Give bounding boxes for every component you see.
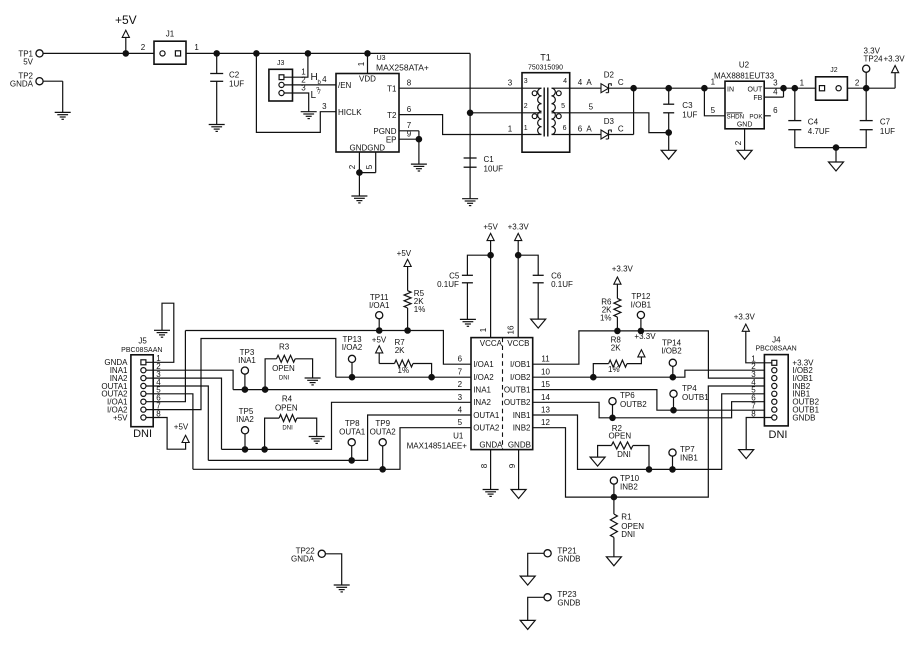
svg-text:+5V: +5V <box>372 336 387 345</box>
svg-text:2: 2 <box>734 140 743 145</box>
ground <box>154 330 170 337</box>
svg-text:GNDA: GNDA <box>10 79 34 88</box>
wire J5 pin2 INA1 <box>146 370 233 389</box>
ground <box>520 576 535 585</box>
junction <box>305 50 312 57</box>
wire net INA2 <box>222 402 472 449</box>
svg-text:MAX8881EUT33: MAX8881EUT33 <box>714 71 775 80</box>
svg-text:4.7UF: 4.7UF <box>808 127 830 136</box>
svg-text:I/OA1: I/OA1 <box>369 301 390 310</box>
svg-text:2K: 2K <box>611 344 621 353</box>
svg-text:PBC08SAAN: PBC08SAAN <box>755 346 796 353</box>
test point TP6 OUTB2 <box>609 391 647 421</box>
svg-text:5: 5 <box>458 418 463 427</box>
svg-text:6: 6 <box>458 355 463 364</box>
svg-text:1: 1 <box>800 78 805 87</box>
wire to ground <box>835 148 837 162</box>
test point TP7 INB1 <box>669 445 698 473</box>
svg-text:5V: 5V <box>23 58 33 67</box>
connector J5 PBC08SAAN <box>101 337 162 441</box>
wire HICLK net <box>256 53 336 132</box>
svg-text:1UF: 1UF <box>880 127 895 136</box>
IC U2 MAX8881EUT33 <box>714 61 775 129</box>
ground <box>483 490 499 497</box>
svg-text:INA2: INA2 <box>473 398 491 407</box>
svg-text:TP4: TP4 <box>682 384 697 393</box>
svg-text:VDD: VDD <box>359 75 376 84</box>
test point TP4 OUTB1 <box>670 384 709 414</box>
svg-text:2: 2 <box>141 43 146 52</box>
svg-text:FB: FB <box>753 95 762 102</box>
ground <box>309 437 325 444</box>
svg-text:MAX258ATA+: MAX258ATA+ <box>376 62 429 72</box>
svg-text:OPEN: OPEN <box>272 364 295 373</box>
svg-text:HICLK: HICLK <box>338 108 362 117</box>
svg-text:OUTA1: OUTA1 <box>339 427 366 436</box>
svg-text:I/OA2: I/OA2 <box>342 343 363 352</box>
svg-text:J2: J2 <box>830 67 838 74</box>
svg-text:4: 4 <box>578 78 583 87</box>
svg-text:7: 7 <box>458 368 463 377</box>
svg-text:R1: R1 <box>621 512 632 521</box>
test point TP13 I/OA2 <box>342 335 363 381</box>
junction <box>213 50 220 57</box>
wire U3 GND pins 2 5 <box>348 152 376 196</box>
ground <box>520 620 535 629</box>
svg-text:9: 9 <box>508 463 517 468</box>
wire J5 pin4 OUTA1 <box>146 386 208 460</box>
test point TP23 GNDB <box>528 590 581 620</box>
svg-text:T1: T1 <box>540 53 551 63</box>
capacitor C4 <box>788 88 836 147</box>
power +5V flag <box>115 13 137 53</box>
test point TP3 INA1 <box>238 348 256 393</box>
svg-text:I/OA2: I/OA2 <box>473 373 494 382</box>
wire U3 VDD pin 1 <box>357 53 368 73</box>
junction <box>123 50 130 57</box>
svg-text:4: 4 <box>322 75 327 84</box>
svg-text:T1: T1 <box>387 84 397 93</box>
svg-text:C4: C4 <box>808 118 819 127</box>
test point TP2 <box>10 71 63 112</box>
power +5V flag VCCA <box>483 223 498 338</box>
svg-text:1: 1 <box>508 125 513 134</box>
svg-text:OUT: OUT <box>748 87 764 94</box>
svg-text:0.1UF: 0.1UF <box>437 280 459 289</box>
svg-text:GNDGND: GNDGND <box>350 143 386 152</box>
svg-text:GNDA: GNDA <box>291 555 315 564</box>
resistor R3 OPEN DNI <box>262 343 313 393</box>
svg-text:INB1: INB1 <box>513 411 531 420</box>
junction <box>701 85 708 92</box>
svg-text:J1: J1 <box>166 30 175 39</box>
junction <box>253 50 260 57</box>
wire U3 T2 to transformer pin 1 <box>399 105 522 135</box>
ground <box>829 162 844 171</box>
svg-text:+3.3V: +3.3V <box>734 313 756 322</box>
svg-text:10: 10 <box>541 368 550 377</box>
wire net INA1 <box>233 389 471 391</box>
svg-text:OUTB1: OUTB1 <box>682 393 709 402</box>
svg-text:1%: 1% <box>608 365 620 374</box>
svg-text:1: 1 <box>479 327 488 332</box>
wire net I/OB2 <box>533 370 765 377</box>
svg-text:EP: EP <box>386 136 397 145</box>
svg-text:+3.3V: +3.3V <box>612 264 634 273</box>
wire J4 pin8 GNDB <box>746 418 772 450</box>
svg-text:MAX14851AEE+: MAX14851AEE+ <box>407 441 468 450</box>
resistor R6 2K 1% <box>600 264 634 334</box>
svg-text:+3.3V: +3.3V <box>634 332 656 341</box>
svg-text:1%: 1% <box>398 366 410 375</box>
svg-text:INB2: INB2 <box>620 482 638 491</box>
junction <box>515 252 522 259</box>
svg-text:5: 5 <box>589 102 594 111</box>
svg-text:INA1: INA1 <box>473 385 491 394</box>
wire rectified rail <box>634 87 725 89</box>
power +5V flag <box>174 423 189 443</box>
svg-text:6: 6 <box>773 106 778 115</box>
wire net INB1 <box>533 394 765 470</box>
resistor R1 OPEN DNI <box>610 497 644 557</box>
svg-text:C3: C3 <box>682 101 693 110</box>
capacitor C6 <box>518 255 573 319</box>
power +3.3V flag <box>892 66 899 89</box>
wire net I/OB1 <box>533 331 765 378</box>
junction <box>630 85 637 92</box>
svg-text:3: 3 <box>458 393 463 402</box>
wire net I/OA2 <box>336 376 471 378</box>
ground <box>462 199 478 206</box>
svg-text:OUTA1: OUTA1 <box>473 411 500 420</box>
wire J3 pin2 to /EN <box>284 75 336 93</box>
svg-text:1: 1 <box>524 125 528 132</box>
svg-text:DNI: DNI <box>133 428 152 440</box>
svg-text:3: 3 <box>773 78 778 87</box>
svg-text:A: A <box>586 125 592 134</box>
svg-text:2: 2 <box>348 164 357 169</box>
svg-text:PBC08SAAN: PBC08SAAN <box>121 347 162 354</box>
resistor R5 2K 1% <box>397 249 426 334</box>
wire U2 GND <box>734 129 745 151</box>
svg-text:U1: U1 <box>453 432 464 441</box>
wire J5 pin5 OUTA2 <box>146 394 193 470</box>
svg-text:J4: J4 <box>772 336 781 345</box>
ground <box>739 450 754 459</box>
svg-text:U3: U3 <box>377 55 386 62</box>
test point TP12 I/OB1 <box>631 292 652 334</box>
svg-text:+3.3V: +3.3V <box>508 223 530 232</box>
svg-text:I/OB1: I/OB1 <box>631 301 652 310</box>
svg-text:OUTB2: OUTB2 <box>620 400 647 409</box>
wire J5 pin7 I/OA2 riser <box>146 339 336 410</box>
svg-text:4: 4 <box>458 406 463 415</box>
svg-text:INB2: INB2 <box>513 424 531 433</box>
wire net OUTB2 <box>533 402 765 418</box>
svg-text:R3: R3 <box>279 343 290 352</box>
test point TP21 GNDB <box>528 546 581 576</box>
wire D3 to D2 output <box>633 88 635 134</box>
svg-text:10UF: 10UF <box>484 164 504 173</box>
svg-text:+5V: +5V <box>174 423 189 432</box>
svg-text:3: 3 <box>322 102 327 111</box>
wire J5 pin1 to ground <box>146 303 174 362</box>
svg-text:1UF: 1UF <box>682 110 697 119</box>
test point TP1 <box>18 50 43 67</box>
svg-text:L: L <box>311 90 317 101</box>
svg-text:5: 5 <box>711 106 716 115</box>
svg-text:C1: C1 <box>484 155 495 164</box>
wire U1 GNDB pin 9 <box>508 450 519 490</box>
svg-text:J5: J5 <box>138 337 147 346</box>
power +3.3V flag <box>734 313 756 332</box>
svg-text:/EN: /EN <box>338 81 352 90</box>
svg-text:D3: D3 <box>604 117 615 126</box>
svg-text:6: 6 <box>563 125 567 132</box>
junction <box>467 110 474 117</box>
svg-text:A: A <box>586 78 592 87</box>
svg-text:GNDB: GNDB <box>557 599 580 608</box>
ground <box>351 196 367 203</box>
IC U1 MAX14851AEE+ <box>407 325 551 450</box>
test point TP22 GNDA <box>291 547 342 585</box>
svg-text:TP24: TP24 <box>864 54 884 63</box>
svg-text:2: 2 <box>855 78 860 87</box>
wire U1 GNDA pin 8 <box>480 450 491 490</box>
svg-text:11: 11 <box>541 355 550 364</box>
ground <box>334 585 350 592</box>
wire J4 pin1 +3.3V <box>746 331 772 363</box>
svg-text:R4: R4 <box>282 394 293 403</box>
ground <box>531 319 546 328</box>
ground <box>305 378 321 385</box>
wire J5 pin6 I/OA1 riser <box>146 331 185 402</box>
svg-text:+5V: +5V <box>397 249 412 258</box>
svg-text:16: 16 <box>506 325 515 334</box>
svg-text:DNI: DNI <box>282 426 293 432</box>
svg-text:OUTB2: OUTB2 <box>504 398 531 407</box>
svg-text:GNDB: GNDB <box>508 440 531 449</box>
wire SHDN net <box>704 77 725 116</box>
wire J2 pin2 to output node <box>847 87 895 89</box>
test point TP14 I/OB2 <box>661 339 682 381</box>
svg-text:6: 6 <box>578 125 583 134</box>
svg-text:0.1UF: 0.1UF <box>551 280 573 289</box>
svg-text:DNI: DNI <box>621 530 635 539</box>
svg-text:1: 1 <box>194 43 199 52</box>
capacitor C2 <box>210 53 244 124</box>
capacitor C3 <box>663 85 697 150</box>
svg-text:+5V: +5V <box>115 13 137 27</box>
wire J3 pin3 to ground <box>284 93 309 112</box>
node H <box>311 72 322 86</box>
svg-text:T2: T2 <box>387 111 397 120</box>
svg-text:I/OA1: I/OA1 <box>473 360 494 369</box>
svg-text:13: 13 <box>541 406 550 415</box>
capacitor C5 <box>437 255 490 319</box>
svg-text:OUTB1: OUTB1 <box>504 385 531 394</box>
wire transformer pin5 to C3 bottom <box>570 102 669 132</box>
svg-text:15: 15 <box>541 380 550 389</box>
svg-text:C7: C7 <box>880 118 891 127</box>
capacitor C7 <box>836 88 895 147</box>
svg-text:1%: 1% <box>600 313 612 322</box>
svg-text:+5V: +5V <box>483 223 498 232</box>
svg-text:6: 6 <box>407 105 412 114</box>
junction <box>863 85 870 92</box>
svg-text:VCCB: VCCB <box>507 339 529 348</box>
test point TP10 INB2 <box>610 474 639 500</box>
svg-text:1UF: 1UF <box>229 80 244 89</box>
svg-text:GND: GND <box>737 122 753 129</box>
junction <box>833 144 840 151</box>
svg-text:+5V: +5V <box>113 413 128 422</box>
connector J2 <box>800 67 860 100</box>
ground <box>55 112 71 119</box>
svg-text:INA2: INA2 <box>236 415 254 424</box>
wire U3 T1 to transformer pin 3 <box>399 78 522 88</box>
connector J1 <box>141 30 200 65</box>
IC U3 MAX258ATA+ <box>336 55 429 152</box>
ground <box>737 150 752 159</box>
resistor R8 2K 1% <box>590 336 641 381</box>
svg-text:C: C <box>618 125 624 134</box>
svg-text:2: 2 <box>458 380 463 389</box>
svg-text:C2: C2 <box>229 71 240 80</box>
svg-text:GNDA: GNDA <box>479 440 503 449</box>
svg-text:DNI: DNI <box>769 429 788 441</box>
svg-text:+3.3V: +3.3V <box>884 54 906 63</box>
ground <box>460 319 476 326</box>
wire +5V rail <box>186 52 470 54</box>
svg-text:OPEN: OPEN <box>608 431 631 440</box>
svg-text:POK: POK <box>749 114 763 121</box>
test point TP5 INA2 <box>236 407 254 453</box>
resistor R7 2K 1% <box>379 338 435 380</box>
ground <box>511 490 526 499</box>
power +3.3V flag <box>634 332 656 357</box>
svg-text:OUTA2: OUTA2 <box>370 427 397 436</box>
wire J5 pin8 +5V <box>146 418 186 450</box>
wire net OUTA2 <box>193 428 471 470</box>
svg-text:2K: 2K <box>395 346 405 355</box>
svg-text:INA1: INA1 <box>238 356 256 365</box>
svg-text:OUTA2: OUTA2 <box>473 424 500 433</box>
svg-text:5: 5 <box>561 103 565 110</box>
test point TP8 OUTA1 <box>339 419 366 464</box>
svg-text:INB1: INB1 <box>680 454 698 463</box>
svg-text:DNI: DNI <box>617 450 631 459</box>
wire U2 POK stub <box>764 106 778 116</box>
ground <box>661 150 676 159</box>
transformer T1 750315090 <box>522 53 570 153</box>
resistor R2 OPEN DNI <box>598 424 653 473</box>
svg-text:8: 8 <box>480 463 489 468</box>
svg-text:OPEN: OPEN <box>275 403 298 412</box>
svg-text:9: 9 <box>407 130 412 139</box>
svg-text:DNI: DNI <box>279 375 290 381</box>
svg-text:4: 4 <box>773 88 778 97</box>
wire net OUTB1 <box>533 390 765 411</box>
svg-text:1: 1 <box>357 61 366 66</box>
diode D3 <box>570 117 634 139</box>
test point TP9 OUTA2 <box>370 419 397 472</box>
test point TP11 I/OA1 <box>369 293 390 334</box>
svg-text:750315090: 750315090 <box>528 65 563 72</box>
svg-text:SHDN: SHDN <box>727 114 745 121</box>
ground <box>606 557 621 566</box>
svg-text:3: 3 <box>508 78 513 87</box>
wire U2 OUT FB <box>764 78 815 97</box>
svg-text:GNDB: GNDB <box>557 555 580 564</box>
capacitor C1 <box>464 155 504 199</box>
node L <box>311 90 322 101</box>
svg-text:J3: J3 <box>277 60 285 67</box>
svg-text:C: C <box>618 78 624 87</box>
svg-text:I/OB1: I/OB1 <box>510 360 531 369</box>
svg-text:TP6: TP6 <box>620 391 635 400</box>
svg-text:12: 12 <box>541 418 550 427</box>
svg-text:5: 5 <box>365 164 374 169</box>
junction <box>487 252 494 259</box>
wire PGND EP <box>399 121 422 164</box>
junction <box>364 50 371 57</box>
wire net INB2 <box>533 386 765 497</box>
svg-text:U2: U2 <box>739 61 750 70</box>
svg-text:14: 14 <box>541 393 550 402</box>
wire net I/OA1 <box>185 331 471 365</box>
wire net OUTA1 <box>208 415 471 460</box>
connector J4 PBC08SAAN <box>751 336 819 441</box>
svg-text:IN: IN <box>727 87 734 94</box>
wire J5 pin3 INA2 <box>146 378 222 449</box>
resistor R4 OPEN DNI <box>261 394 316 452</box>
ground <box>301 112 317 119</box>
svg-text:8: 8 <box>407 78 412 87</box>
wire J3 pin1 to +5V <box>284 53 308 77</box>
svg-text:I/OB2: I/OB2 <box>661 347 682 356</box>
svg-text:D2: D2 <box>604 71 615 80</box>
wire <box>43 52 154 54</box>
svg-text:I/OB2: I/OB2 <box>510 373 531 382</box>
power +5V flag <box>372 336 387 353</box>
svg-text:1%: 1% <box>414 305 426 314</box>
svg-text:VCCA: VCCA <box>480 339 503 348</box>
test point TP24 <box>863 46 906 88</box>
ground <box>411 164 427 171</box>
svg-text:2: 2 <box>524 103 528 110</box>
wire rail corner to transformer pin 2 <box>469 53 471 168</box>
svg-text:4: 4 <box>563 78 567 85</box>
ground <box>590 457 605 466</box>
power +3.3V flag VCCB <box>508 223 530 338</box>
ground <box>209 125 225 132</box>
diode D2 <box>570 71 634 93</box>
connector J3 <box>269 60 306 101</box>
svg-text:GNDB: GNDB <box>792 413 815 422</box>
svg-text:3: 3 <box>524 78 528 85</box>
